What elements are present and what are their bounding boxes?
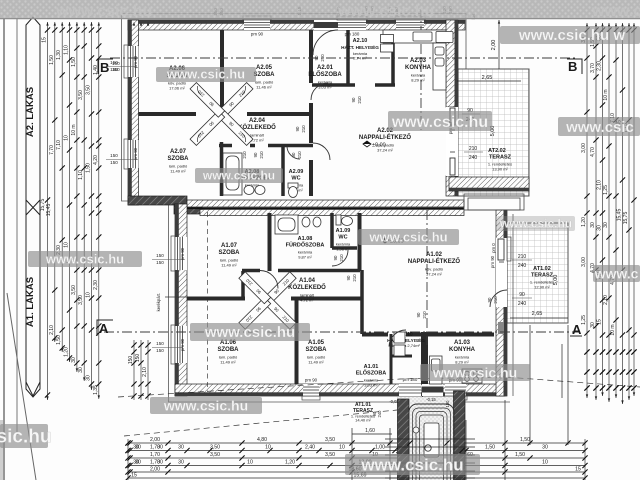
svg-text:150: 150 xyxy=(156,348,164,353)
marker B right xyxy=(567,59,582,74)
svg-text:TERASZ: TERASZ xyxy=(489,155,512,161)
svg-text:15: 15 xyxy=(575,467,581,473)
svg-text:15: 15 xyxy=(597,319,603,325)
section line A-A xyxy=(104,331,580,333)
svg-text:TERASZ: TERASZ xyxy=(531,273,554,279)
svg-text:3,50: 3,50 xyxy=(78,295,84,305)
A1 left wall xyxy=(175,204,187,396)
wall A2.07|furdo xyxy=(220,142,224,196)
wall eloszoba | hazt xyxy=(391,334,412,384)
fixtures xyxy=(223,30,482,384)
svg-text:15,75: 15,75 xyxy=(623,212,629,225)
svg-text:pm 90: pm 90 xyxy=(180,247,185,260)
svg-text:±0,00: ±0,00 xyxy=(372,143,386,149)
svg-text:150: 150 xyxy=(445,400,450,408)
svg-text:www.csi: www.csi xyxy=(591,3,640,20)
svg-text:210: 210 xyxy=(297,151,302,159)
top watermark band xyxy=(0,0,640,20)
svg-text:AT1.01: AT1.01 xyxy=(355,402,371,408)
bottom dimension rows xyxy=(128,442,585,444)
svg-text:3,50: 3,50 xyxy=(325,452,335,458)
svg-text:pm 90: pm 90 xyxy=(133,55,138,68)
svg-text:1,50: 1,50 xyxy=(56,335,62,345)
svg-text:30: 30 xyxy=(178,445,184,451)
svg-text:3,00: 3,00 xyxy=(581,143,587,153)
svg-text:150: 150 xyxy=(110,160,118,165)
svg-text:4,72 m²: 4,72 m² xyxy=(300,298,314,303)
svg-text:1,50: 1,50 xyxy=(86,163,92,173)
marker A right xyxy=(570,322,582,337)
window A1 bottom wall 1 xyxy=(303,384,319,396)
svg-text:90: 90 xyxy=(295,126,300,131)
svg-text:pm 90: pm 90 xyxy=(180,338,185,351)
svg-text:2,40: 2,40 xyxy=(305,445,315,451)
svg-text:210: 210 xyxy=(301,125,306,133)
svg-text:pm 90: pm 90 xyxy=(133,147,138,160)
wall nappali | konyha row xyxy=(362,333,494,337)
svg-text:10: 10 xyxy=(247,460,253,466)
svg-text:1,00: 1,00 xyxy=(375,445,385,451)
marker B left xyxy=(98,59,120,75)
section line B-B xyxy=(110,57,578,59)
svg-text:11,49 m²: 11,49 m² xyxy=(308,360,324,365)
svg-text:15: 15 xyxy=(131,473,137,479)
svg-text:150: 150 xyxy=(156,260,164,265)
A1 bottom wall xyxy=(175,384,505,396)
svg-text:30: 30 xyxy=(597,225,603,231)
svg-text:SZOBA: SZOBA xyxy=(306,347,328,353)
watermark band 3 xyxy=(388,111,492,131)
terrace AT1.02 grid xyxy=(507,223,568,323)
svg-text:30: 30 xyxy=(78,367,84,373)
marker A left xyxy=(97,320,113,336)
svg-text:10: 10 xyxy=(265,445,271,451)
svg-text:www.csic.hu: www.csic.hu xyxy=(360,455,463,474)
doors xyxy=(218,83,253,118)
svg-text:240: 240 xyxy=(377,410,382,418)
wall left of eloszoba block xyxy=(360,270,364,334)
svg-text:-0,15: -0,15 xyxy=(426,397,436,402)
svg-text:A2. LAKAS: A2. LAKAS xyxy=(25,87,36,137)
svg-text:NAPPALI-ÉTKEZŐ: NAPPALI-ÉTKEZŐ xyxy=(359,133,412,141)
svg-text:A1.03: A1.03 xyxy=(454,340,471,346)
A2 left wall xyxy=(128,20,139,205)
svg-text:240: 240 xyxy=(518,301,527,307)
svg-text:3,50: 3,50 xyxy=(325,437,335,443)
svg-text:HÁZT. HELYISÉG: HÁZT. HELYISÉG xyxy=(387,336,425,343)
svg-text:30: 30 xyxy=(157,460,163,466)
svg-text:150: 150 xyxy=(110,60,118,65)
svg-text:4,80: 4,80 xyxy=(257,437,267,443)
svg-text:A2.01: A2.01 xyxy=(317,65,334,71)
window A1 left wall 1 xyxy=(175,237,187,270)
terrace door A2 right wall xyxy=(446,107,458,176)
svg-text:12,90 m²: 12,90 m² xyxy=(534,285,550,290)
watermark band 12 xyxy=(150,397,262,414)
svg-text:SZOBA: SZOBA xyxy=(254,72,276,78)
svg-text:30: 30 xyxy=(542,445,548,451)
paper left edge lines xyxy=(3,19,5,480)
svg-text:1,40: 1,40 xyxy=(93,65,99,75)
svg-text:B: B xyxy=(568,59,577,74)
wall A1.06|A1.05 xyxy=(295,300,299,384)
window A1 bottom wall (pm180) xyxy=(399,384,421,396)
watermark band 5 xyxy=(195,168,283,183)
wall corridor A1.04 top xyxy=(242,269,360,273)
wall left of ELOSZOBA xyxy=(309,30,313,83)
svg-text:4,70: 4,70 xyxy=(590,147,596,157)
svg-text:A1.04: A1.04 xyxy=(299,278,316,284)
svg-text:10: 10 xyxy=(86,292,92,298)
svg-text:10 m: 10 m xyxy=(71,124,77,135)
svg-text:3,50: 3,50 xyxy=(210,445,220,451)
rows over porch xyxy=(385,439,475,478)
svg-text:150: 150 xyxy=(110,67,118,72)
window+door A1 right wall xyxy=(496,238,507,334)
window top wall 2 xyxy=(338,20,366,30)
svg-text:15,45: 15,45 xyxy=(46,204,52,217)
svg-text:150: 150 xyxy=(135,354,141,363)
svg-text:10: 10 xyxy=(64,242,70,248)
svg-text:HÁZT. HELYISÉG: HÁZT. HELYISÉG xyxy=(341,43,379,50)
svg-text:10 m: 10 m xyxy=(610,324,616,335)
svg-text:pm 180: pm 180 xyxy=(345,32,360,37)
svg-text:A1.02: A1.02 xyxy=(426,252,443,258)
wall right of wc/furdo block xyxy=(358,213,362,271)
svg-text:1,10: 1,10 xyxy=(64,45,70,55)
party wall between units xyxy=(128,196,187,205)
watermark band 13 xyxy=(0,424,51,448)
svg-text:2,74 m²: 2,74 m² xyxy=(353,56,367,61)
A2 entrance door top wall xyxy=(314,20,339,30)
svg-text:A: A xyxy=(99,321,109,336)
svg-text:3,50: 3,50 xyxy=(78,90,84,100)
svg-text:2,00: 2,00 xyxy=(150,437,160,443)
svg-text:1,50: 1,50 xyxy=(71,57,77,67)
svg-text:30: 30 xyxy=(590,222,596,228)
svg-text:1,50: 1,50 xyxy=(485,445,495,451)
svg-text:A1.07: A1.07 xyxy=(221,243,238,249)
A2 top wall xyxy=(128,20,465,30)
svg-text:AT1.02: AT1.02 xyxy=(533,266,551,272)
svg-text:17,06 m²: 17,06 m² xyxy=(169,86,185,91)
svg-text:210: 210 xyxy=(259,151,264,159)
watermark band 6 xyxy=(358,229,459,245)
hazt.helyiseg A2.10 walls xyxy=(312,30,395,85)
svg-text:9,87 m²: 9,87 m² xyxy=(298,255,312,260)
svg-text:A1.01: A1.01 xyxy=(364,364,379,370)
svg-text:30: 30 xyxy=(178,460,184,466)
vertical axis upper xyxy=(420,8,422,130)
svg-text:2,00: 2,00 xyxy=(491,40,497,51)
svg-text:1,50: 1,50 xyxy=(49,55,55,65)
svg-text:www.csic.hu: www.csic.hu xyxy=(166,67,245,82)
svg-text:3,50: 3,50 xyxy=(86,85,92,95)
terrace step platform xyxy=(464,194,524,210)
svg-text:210: 210 xyxy=(518,254,527,260)
wall A1.07|corridor bottom xyxy=(187,297,362,301)
svg-text:11,46 m²: 11,46 m² xyxy=(256,85,272,90)
svg-text:2,10: 2,10 xyxy=(597,180,603,190)
svg-text:3,70: 3,70 xyxy=(590,63,596,73)
svg-text:WC: WC xyxy=(338,235,347,241)
watermark band 8 xyxy=(497,216,575,231)
svg-text:2,65: 2,65 xyxy=(482,75,493,81)
svg-text:8,29 m²: 8,29 m² xyxy=(411,78,425,83)
svg-text:210: 210 xyxy=(339,254,344,262)
svg-text:3,03 m²: 3,03 m² xyxy=(364,383,378,388)
svg-text:pm 0: pm 0 xyxy=(491,243,496,253)
svg-text:www.csic.hu w: www.csic.hu w xyxy=(518,27,625,44)
wall furdo|wc xyxy=(281,146,285,196)
svg-text:kerékpárt.: kerékpárt. xyxy=(156,293,161,312)
svg-text:1,35: 1,35 xyxy=(93,385,99,395)
entrance door gap xyxy=(422,384,444,396)
svg-text:A2.07: A2.07 xyxy=(170,149,187,155)
svg-text:2,30: 2,30 xyxy=(93,280,99,290)
svg-text:210: 210 xyxy=(242,151,247,159)
svg-text:1,50: 1,50 xyxy=(515,452,525,458)
svg-text:A1.09: A1.09 xyxy=(336,228,351,234)
svg-text:2,10: 2,10 xyxy=(49,325,55,335)
svg-text:1,20: 1,20 xyxy=(64,347,70,357)
A2 right wall xyxy=(446,20,458,107)
svg-text:90: 90 xyxy=(416,312,421,317)
entrance porch xyxy=(352,325,568,480)
A1 right wall xyxy=(496,210,507,396)
svg-text:210: 210 xyxy=(469,146,478,152)
svg-text:10: 10 xyxy=(542,460,548,466)
vertical axis lower xyxy=(426,210,428,345)
svg-text:1,25: 1,25 xyxy=(603,185,609,195)
svg-text:90: 90 xyxy=(519,292,525,298)
svg-text:A2.10: A2.10 xyxy=(353,38,368,44)
wall A1.07|furdo xyxy=(268,213,272,271)
wall wc A1.09 xyxy=(332,213,357,248)
svg-text:90: 90 xyxy=(253,152,258,157)
svg-text:www.csic.hu: www.csic.hu xyxy=(202,169,275,183)
svg-text:1,30: 1,30 xyxy=(56,50,62,60)
svg-text:5,00: 5,00 xyxy=(553,275,559,286)
wall furdo/wc top xyxy=(219,144,313,148)
svg-text:10: 10 xyxy=(64,135,70,141)
svg-text:150: 150 xyxy=(110,153,118,158)
watermark band 11 xyxy=(420,364,530,381)
svg-text:3,50: 3,50 xyxy=(71,285,77,295)
svg-text:ELŐSZOBA: ELŐSZOBA xyxy=(356,370,387,377)
watermark band 4 xyxy=(558,117,640,136)
svg-text:11,49 m²: 11,49 m² xyxy=(220,360,236,365)
svg-text:www.csic.hu: www.csic.hu xyxy=(337,3,434,20)
svg-text:30: 30 xyxy=(135,445,141,451)
svg-text:1,20: 1,20 xyxy=(581,217,587,227)
svg-text:1,20: 1,20 xyxy=(285,460,295,466)
right dimension chains xyxy=(586,23,588,398)
svg-text:KÖZLEKEDŐ: KÖZLEKEDŐ xyxy=(288,284,326,291)
corridor left stub xyxy=(241,271,245,299)
svg-text:90: 90 xyxy=(351,97,356,102)
svg-text:sic.hu: sic.hu xyxy=(0,427,51,448)
wall corridor top xyxy=(139,112,312,116)
svg-text:www.csic.hu: www.csic.hu xyxy=(391,114,488,131)
svg-text:150: 150 xyxy=(156,341,164,346)
svg-text:150: 150 xyxy=(128,356,134,365)
watermark band 14 xyxy=(345,454,480,475)
watermark band 9 xyxy=(593,265,640,282)
svg-text:A1.05: A1.05 xyxy=(308,340,325,346)
svg-text:www.csic.hu: www.csic.hu xyxy=(368,229,447,244)
svg-text:B: B xyxy=(100,60,109,75)
window sills outside walls xyxy=(124,16,511,400)
watermark band 2 xyxy=(500,26,640,44)
svg-text:90: 90 xyxy=(346,275,351,280)
svg-text:30: 30 xyxy=(590,322,596,328)
svg-text:SZOBA: SZOBA xyxy=(219,250,241,256)
svg-text:pm 90: pm 90 xyxy=(305,378,318,383)
svg-text:pm 180: pm 180 xyxy=(403,377,418,382)
svg-text:210: 210 xyxy=(320,54,325,62)
svg-text:pm 90: pm 90 xyxy=(251,32,264,37)
svg-text:90: 90 xyxy=(333,255,338,260)
svg-text:7,10: 7,10 xyxy=(56,140,62,150)
svg-text:210: 210 xyxy=(422,311,427,319)
wall right of corridor / nappali xyxy=(309,160,313,196)
svg-text:A1.08: A1.08 xyxy=(298,236,313,242)
svg-text:14,40 m²: 14,40 m² xyxy=(355,418,371,423)
svg-text:-0,02: -0,02 xyxy=(389,399,399,404)
svg-text:SZOBA: SZOBA xyxy=(218,347,240,353)
svg-text:30: 30 xyxy=(71,357,77,363)
svg-text:11,49 m²: 11,49 m² xyxy=(170,169,186,174)
svg-text:1,50: 1,50 xyxy=(520,437,530,443)
svg-text:www.csic.hu: www.csic.hu xyxy=(45,251,124,266)
svg-text:37,24 m²: 37,24 m² xyxy=(426,272,442,277)
svg-text:3,03 m²: 3,03 m² xyxy=(318,85,332,90)
svg-text:3,50: 3,50 xyxy=(210,452,220,458)
svg-text:A1. LAKAS: A1. LAKAS xyxy=(25,277,36,327)
svg-text:2,65: 2,65 xyxy=(532,311,543,317)
terrace AT2.02 grid xyxy=(458,69,529,196)
svg-text:A2.03: A2.03 xyxy=(410,58,427,64)
svg-text:10: 10 xyxy=(339,445,345,451)
svg-text:1,10: 1,10 xyxy=(78,170,84,180)
svg-text:1,25: 1,25 xyxy=(581,315,587,325)
svg-text:210: 210 xyxy=(357,96,362,104)
svg-text:7,70: 7,70 xyxy=(49,145,55,155)
svg-text:30: 30 xyxy=(603,222,609,228)
svg-text:A2.05: A2.05 xyxy=(256,65,273,71)
svg-text:90: 90 xyxy=(314,55,319,60)
svg-text:www.c: www.c xyxy=(594,265,639,281)
svg-text:www.csic.hu: www.csic.hu xyxy=(499,217,572,231)
svg-text:ELŐSZOBA: ELŐSZOBA xyxy=(308,71,342,78)
svg-text:30: 30 xyxy=(157,445,163,451)
svg-text:KONYHA: KONYHA xyxy=(449,347,476,353)
svg-text:A2.09: A2.09 xyxy=(289,169,304,175)
svg-text:2,30: 2,30 xyxy=(597,61,603,71)
svg-text:KONYHA: KONYHA xyxy=(405,65,432,71)
svg-text:2,00: 2,00 xyxy=(150,467,160,473)
wall A2.06|A2.05 xyxy=(220,30,224,112)
svg-text:210: 210 xyxy=(352,274,357,282)
svg-text:pm 90: pm 90 xyxy=(490,255,495,268)
svg-text:2,10: 2,10 xyxy=(142,367,148,377)
svg-text:10 m: 10 m xyxy=(603,89,609,100)
svg-text:240: 240 xyxy=(469,155,478,161)
svg-text:2,10: 2,10 xyxy=(603,295,609,305)
svg-text:www.csic.hu: www.csic.hu xyxy=(204,324,295,341)
svg-text:AT2.02: AT2.02 xyxy=(488,148,506,154)
svg-text:13,90 m²: 13,90 m² xyxy=(492,167,508,172)
svg-text:15: 15 xyxy=(42,37,48,43)
svg-text:www.csic: www.csic xyxy=(565,119,634,136)
window A1 left wall 2 xyxy=(175,326,187,363)
svg-text:www.csic.hu: www.csic.hu xyxy=(55,3,152,20)
paper diagonal fold bottom-left xyxy=(7,293,36,480)
svg-text:NAPPALI-ÉTKEZŐ: NAPPALI-ÉTKEZŐ xyxy=(408,257,461,265)
watermark band 7 xyxy=(28,251,142,267)
dashed boundary polyline xyxy=(118,377,640,397)
dashed roof line over A1 xyxy=(207,212,209,392)
svg-text:SZOBA: SZOBA xyxy=(168,156,190,162)
window A2 left wall 1 xyxy=(128,46,139,77)
svg-text:1,60: 1,60 xyxy=(365,428,375,434)
svg-text:4,20: 4,20 xyxy=(93,155,99,165)
svg-text:A2.04: A2.04 xyxy=(249,118,266,124)
svg-text:3,00: 3,00 xyxy=(581,257,587,267)
svg-text:1,70: 1,70 xyxy=(150,452,160,458)
svg-text:240: 240 xyxy=(518,263,527,269)
wall hazt | konyha xyxy=(421,332,428,384)
svg-text:15,45: 15,45 xyxy=(617,209,623,222)
window A2 left wall 2 xyxy=(128,140,139,168)
svg-text:30: 30 xyxy=(135,460,141,466)
svg-text:FÜRDŐSZOBA: FÜRDŐSZOBA xyxy=(286,242,325,249)
svg-text:150: 150 xyxy=(156,253,164,258)
window A1 bottom wall 2 xyxy=(445,384,466,396)
svg-text:11,49 m²: 11,49 m² xyxy=(221,263,237,268)
window top wall 1 xyxy=(244,20,270,30)
watermark band 1 xyxy=(156,67,256,82)
svg-text:30: 30 xyxy=(86,375,92,381)
window top wall 3 xyxy=(396,20,424,30)
watermark band 10 xyxy=(190,323,310,341)
svg-text:www.csic.hu: www.csic.hu xyxy=(432,364,517,380)
svg-text:WC: WC xyxy=(291,176,300,182)
svg-text:www.csic.hu: www.csic.hu xyxy=(163,397,248,413)
